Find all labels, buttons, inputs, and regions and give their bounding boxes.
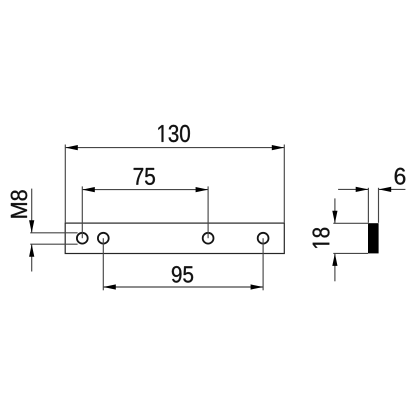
dimension 95: value label bbox=[172, 266, 193, 282]
plate front view outline bbox=[65, 223, 284, 253]
side view: plate cross-section (solid) bbox=[368, 223, 379, 253]
dimension 75: value label bbox=[134, 168, 155, 185]
dimension 75: left arrowhead bbox=[82, 187, 95, 192]
dimension 130: right arrowhead bbox=[272, 145, 285, 150]
dimension 6: value label bbox=[395, 168, 406, 185]
dimension 75: right arrowhead bbox=[196, 187, 209, 192]
hole 1 bbox=[77, 233, 88, 244]
dimension 18: upper dimension line segment bbox=[334, 198, 336, 223]
dimension M8: lower arrowhead pointing up bbox=[29, 244, 34, 257]
dimension 6: right dimension line segment bbox=[379, 188, 406, 190]
dimension 18: lower arrowhead pointing up bbox=[332, 253, 337, 266]
dimension 75: dimension line bbox=[82, 189, 208, 191]
dimension M8: upper leader line tangent to hole 1 bbox=[30, 232, 77, 234]
dimension 130: left extension line bbox=[64, 145, 66, 223]
dimension 6: left arrowhead pointing right bbox=[356, 187, 369, 192]
dimension 6: left dimension line segment bbox=[338, 188, 368, 190]
dimension 18: value label bbox=[313, 228, 330, 248]
hole 4 bbox=[258, 233, 269, 244]
dimension 18: upper extension line bbox=[333, 222, 368, 224]
dimension 18: upper arrowhead pointing down bbox=[332, 211, 337, 224]
dimension 95: right arrowhead bbox=[251, 284, 264, 289]
dimension 6: left extension line bbox=[367, 188, 369, 223]
dimension 18: lower dimension line segment bbox=[334, 253, 336, 281]
dimension M8: upper arrowhead pointing down bbox=[29, 220, 34, 233]
dimension 6: right extension line bbox=[378, 188, 380, 223]
dimension M8: thread size label bbox=[11, 190, 27, 217]
dimension M8: lower leader line tangent to hole 1 bbox=[30, 243, 77, 245]
dimension 95: left arrowhead bbox=[103, 284, 116, 289]
dimension 95: left extension line from hole 2 bbox=[102, 238, 104, 290]
dimension M8: lower dimension line segment bbox=[31, 244, 33, 271]
dimension 95: right extension line from hole 4 bbox=[262, 238, 264, 290]
dimension 6: right arrowhead pointing left bbox=[379, 187, 392, 192]
hole 3 bbox=[203, 233, 214, 244]
dimension 130: dimension line bbox=[65, 147, 284, 149]
hole 2 bbox=[98, 233, 109, 244]
dimension 130: value label bbox=[158, 125, 190, 142]
dimension 130: left arrowhead bbox=[65, 145, 78, 150]
dimension 75: left extension line from hole 1 bbox=[81, 186, 83, 238]
dimension 95: dimension line bbox=[103, 286, 263, 288]
dimension M8: upper dimension line segment bbox=[31, 189, 33, 233]
dimension 18: lower extension line bbox=[333, 252, 368, 254]
dimension 75: right extension line from hole 3 bbox=[207, 186, 209, 238]
dimension 130: right extension line bbox=[283, 145, 285, 223]
